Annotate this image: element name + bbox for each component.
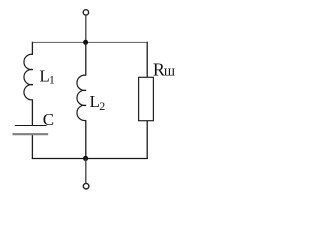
terminal (bottom) bbox=[83, 183, 89, 189]
wire top horizontal bus bbox=[32, 41, 148, 43]
svg-text:C: C bbox=[43, 110, 54, 129]
node B (bottom junction dot) bbox=[83, 156, 88, 161]
wire top terminal to node A bbox=[85, 15, 87, 42]
wire node A down to L1 bbox=[31, 42, 33, 55]
svg-text:ш: ш bbox=[164, 64, 175, 80]
resistor RSh body bbox=[139, 77, 154, 120]
wire L2 to bottom bus bbox=[85, 120, 87, 159]
wire node A to resistor bbox=[146, 42, 148, 78]
wire capacitor to bottom bus bbox=[31, 135, 33, 159]
wire resistor to bottom bus bbox=[146, 121, 148, 159]
svg-text:2: 2 bbox=[99, 99, 105, 113]
node A (top junction dot) bbox=[83, 40, 88, 45]
inductor L2 bbox=[77, 75, 86, 120]
wire L1 to capacitor C bbox=[31, 100, 33, 126]
wire node B to bottom terminal bbox=[85, 158, 87, 183]
wire bottom horizontal bus bbox=[32, 158, 148, 160]
wire node A down to L2 bbox=[85, 42, 87, 75]
capacitor C bottom plate bbox=[13, 133, 49, 135]
svg-text:1: 1 bbox=[49, 72, 55, 86]
terminal (top) bbox=[83, 10, 88, 15]
capacitor C top plate bbox=[15, 125, 47, 127]
inductor L1 bbox=[24, 54, 33, 100]
